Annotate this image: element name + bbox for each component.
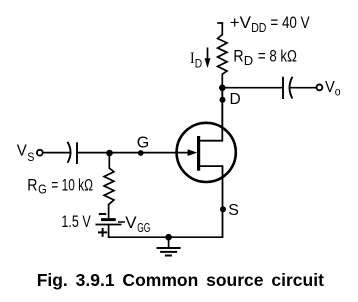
svg-text:D: D <box>230 91 241 108</box>
svg-text:DD: DD <box>251 21 266 35</box>
svg-text:G: G <box>38 183 47 197</box>
battery VGG <box>96 220 126 225</box>
gate arrowhead <box>188 149 198 156</box>
gate bar <box>197 136 200 171</box>
wire output row <box>222 87 283 89</box>
svg-text:= 8 kΩ: = 8 kΩ <box>258 46 297 65</box>
resistor RD <box>218 35 227 75</box>
svg-text:G: G <box>137 135 149 152</box>
svg-text:V: V <box>125 213 137 232</box>
label minus <box>99 213 106 215</box>
svg-text:Fig. 3.9.1 Common source circu: Fig. 3.9.1 Common source circuit <box>37 270 324 290</box>
wire drain lead <box>221 74 223 142</box>
label Vo <box>325 79 341 98</box>
wire RG to battery <box>108 204 110 220</box>
svg-text:= 10 kΩ: = 10 kΩ <box>51 175 93 194</box>
svg-text:R: R <box>233 46 243 65</box>
svg-text:V: V <box>17 143 27 160</box>
svg-text:GG: GG <box>137 221 150 235</box>
terminal Vo <box>317 85 323 91</box>
node junction gate-RG <box>106 150 113 157</box>
wire source internal <box>200 166 223 237</box>
wire bottom rail <box>108 236 224 238</box>
label RG = 10 kOhm <box>27 175 93 196</box>
transistor Q1 body <box>177 123 236 182</box>
svg-text:D: D <box>244 54 253 68</box>
wire drain internal <box>200 88 222 141</box>
capacitor C1 input coupling <box>68 142 78 164</box>
svg-text:V: V <box>325 79 335 96</box>
svg-text:= 40 V: = 40 V <box>270 13 310 32</box>
resistor RG <box>104 168 114 204</box>
node S <box>220 206 226 212</box>
ground <box>157 237 181 255</box>
wire input row right of capacitor <box>77 152 190 154</box>
label ID <box>190 50 202 71</box>
svg-text:S: S <box>228 202 239 219</box>
svg-text:S: S <box>27 150 34 164</box>
terminal VS <box>37 150 43 156</box>
node D <box>220 97 226 103</box>
svg-text:+V: +V <box>230 13 252 32</box>
node junction ground <box>165 234 172 241</box>
node junction drain-output <box>219 85 226 92</box>
wire input row left of capacitor <box>43 152 70 154</box>
svg-text:D: D <box>195 59 202 71</box>
current arrow ID <box>205 48 211 69</box>
label VS <box>17 143 35 164</box>
label plus <box>98 228 107 237</box>
wire capacitor to Vo <box>290 87 316 89</box>
svg-text:R: R <box>27 175 37 194</box>
label VGG <box>125 213 150 235</box>
label RD = 8 kOhm <box>233 46 297 67</box>
svg-text:o: o <box>335 85 341 99</box>
wire junction to RG <box>108 153 110 169</box>
svg-text:1.5 V: 1.5 V <box>61 213 90 231</box>
wire VDD supply lead <box>217 22 223 35</box>
node G <box>138 150 144 156</box>
wire battery to bottom rail <box>108 225 110 239</box>
capacitor C2 output coupling <box>283 77 292 99</box>
label +VDD = 40 V <box>230 13 310 35</box>
